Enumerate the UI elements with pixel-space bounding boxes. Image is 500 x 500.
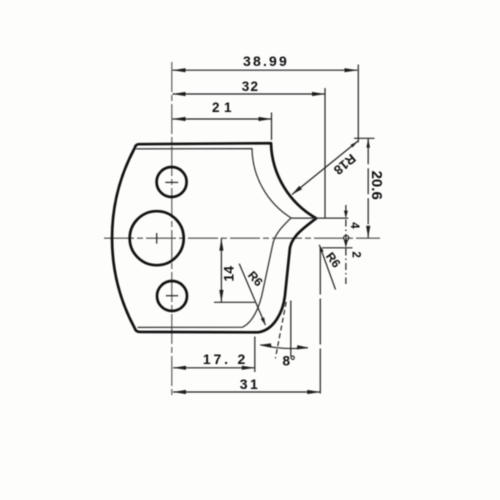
dimension 17.2 left arrow [173, 366, 186, 370]
dimension 38.99 left arrow [173, 68, 186, 72]
dimension 21 line [173, 118, 272, 120]
dimension 38.99 line [173, 69, 358, 71]
dimension 17.2 line [173, 367, 255, 369]
svg-text:31: 31 [240, 376, 261, 392]
svg-text:38.99: 38.99 [243, 53, 289, 69]
svg-text:8°: 8° [283, 354, 296, 369]
tip flat extension line [325, 217, 348, 219]
hole large [130, 211, 184, 265]
dimension 31 left arrow [173, 390, 186, 394]
leader R18 [292, 141, 358, 195]
reference line for 2 [322, 247, 353, 249]
8 degree arc right arrow [297, 345, 308, 349]
hole bottom [157, 281, 187, 311]
extension line right of 38.99 [357, 65, 359, 143]
dimension 20.6 top tick [354, 137, 375, 139]
dimension 21 left arrow [173, 117, 186, 121]
svg-text:17. 2: 17. 2 [203, 351, 248, 367]
8 degree arc left arrow [260, 343, 271, 347]
dimension 17.2 right arrow [242, 366, 255, 370]
extension line right of 31 (long) [319, 249, 321, 394]
dimension 4/2 line [345, 205, 347, 284]
horizontal centerline [104, 237, 380, 239]
svg-text:32: 32 [242, 79, 259, 94]
dimension 32 left arrow [173, 92, 186, 96]
dimension 14 reference line [214, 301, 255, 303]
vertical centerline [171, 62, 173, 397]
leader R6 right arrow [319, 245, 323, 253]
knife blank outline [112, 143, 316, 332]
dimension 2 arrow at lower reference [344, 240, 348, 248]
svg-text:R6: R6 [245, 268, 266, 289]
dimension 14 bottom arrow [219, 290, 223, 302]
leader R18 arrow at top [351, 141, 358, 147]
8 degree vertical reference [290, 301, 292, 357]
node circle on centerline [344, 235, 349, 240]
svg-text:R6: R6 [323, 250, 344, 271]
dimension 20.6 bottom arrow [366, 226, 370, 238]
8 degree slant line [275, 302, 286, 358]
leader R6 left [239, 264, 265, 325]
dimension 4 arrow at tip flat [344, 211, 348, 219]
hole top [157, 167, 187, 197]
leader R6 right [319, 245, 335, 290]
hole large center tick [156, 233, 158, 244]
svg-text:14: 14 [221, 266, 237, 282]
svg-text:R18: R18 [331, 151, 359, 178]
tip flat edge [291, 217, 325, 219]
dimension 14 top arrow [219, 239, 223, 251]
8 degree arc [260, 345, 308, 349]
extension line right of 32 (to tip flat) [324, 88, 326, 218]
leader R18 arrow at arc [292, 186, 302, 195]
dimension 20.6 line [367, 138, 369, 238]
svg-text:21: 21 [212, 100, 236, 115]
hole top center tick [165, 181, 178, 183]
hole bottom center tick [166, 295, 178, 297]
dimension 32 line [173, 93, 326, 95]
dimension 20.6 top arrow [366, 139, 370, 148]
leader R6 left arrow [261, 317, 266, 325]
svg-text:20.6: 20.6 [368, 171, 385, 200]
dimension 32 right arrow [312, 92, 325, 96]
dimension 31 right arrow [307, 390, 320, 394]
extension line right of 21 [271, 113, 273, 141]
dimension 31 line [173, 391, 320, 393]
dimension 14 line [220, 238, 222, 302]
extension line right of 17.2 [254, 337, 256, 373]
grind bevel line (thin inner offset) [136, 149, 291, 328]
dimension 38.99 right arrow [345, 68, 358, 72]
dimension 21 right arrow [259, 117, 272, 121]
svg-text:2: 2 [349, 251, 361, 257]
svg-text:4: 4 [348, 222, 360, 229]
